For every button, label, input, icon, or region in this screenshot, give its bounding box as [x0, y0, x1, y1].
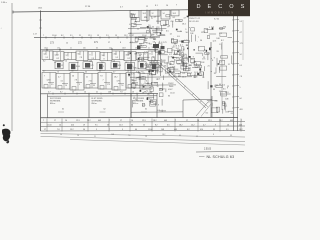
svg-text:17: 17	[120, 120, 122, 122]
inner boundary y33	[128, 32, 151, 34]
svg-text:12: 12	[152, 13, 154, 15]
right margin ticks and figures	[232, 19, 239, 21]
svg-text:11.04: 11.04	[131, 14, 136, 16]
parcels under logo	[220, 27, 223, 29]
svg-text:173: 173	[57, 47, 60, 49]
main parcel boundary vertical	[40, 11, 42, 132]
dark building block	[153, 44, 159, 48]
svg-text:3.1: 3.1	[226, 129, 229, 131]
svg-text:173: 173	[107, 84, 110, 86]
svg-text:56: 56	[153, 42, 155, 44]
svg-text:12: 12	[137, 29, 139, 31]
svg-text:8.2: 8.2	[43, 61, 45, 63]
boundary vertical x211	[210, 42, 212, 118]
svg-text:108: 108	[108, 91, 111, 93]
svg-text:7.8: 7.8	[75, 80, 78, 82]
svg-text:33: 33	[186, 45, 188, 47]
svg-text:21: 21	[94, 136, 96, 138]
svg-text:17: 17	[54, 120, 56, 122]
svg-text:15.2: 15.2	[191, 124, 195, 126]
svg-text:17: 17	[108, 42, 110, 44]
svg-text:6.5: 6.5	[166, 30, 169, 32]
svg-text:14: 14	[57, 72, 59, 74]
svg-text:7: 7	[201, 74, 202, 76]
svg-text:33: 33	[93, 85, 95, 87]
svg-text:108: 108	[216, 38, 219, 40]
svg-text:7.8: 7.8	[71, 71, 73, 73]
svg-text:64: 64	[131, 124, 133, 126]
svg-text:19: 19	[133, 26, 135, 28]
svg-text:6.5: 6.5	[189, 72, 192, 74]
svg-text:410: 410	[206, 54, 209, 56]
svg-text:9: 9	[193, 56, 194, 58]
svg-text:9: 9	[214, 86, 215, 88]
boundary vertical x160	[160, 50, 162, 76]
svg-text:9: 9	[215, 124, 216, 126]
svg-text:6.5: 6.5	[177, 36, 180, 38]
svg-text:17: 17	[219, 91, 221, 93]
svg-text:14: 14	[202, 77, 204, 79]
svg-text:2.3: 2.3	[136, 68, 139, 70]
svg-text:14: 14	[183, 49, 185, 51]
svg-text:5: 5	[79, 84, 80, 86]
svg-text:410/7: 410/7	[168, 89, 173, 91]
garage band south line	[42, 69, 158, 71]
svg-text:17.56: 17.56	[85, 6, 91, 8]
svg-text:19: 19	[214, 73, 216, 75]
building row along top street	[130, 10, 139, 17]
wall below top line	[157, 9, 159, 24]
svg-text:4.7: 4.7	[48, 91, 51, 93]
svg-text:7: 7	[203, 51, 204, 53]
svg-text:2.3: 2.3	[219, 33, 222, 35]
svg-text:410: 410	[83, 47, 86, 49]
parcels lower right column	[222, 101, 225, 105]
svg-text:12.04: 12.04	[170, 92, 175, 94]
corner parcel structure lower right	[182, 100, 184, 117]
svg-text:19: 19	[128, 76, 130, 78]
sloped chain lines below band	[41, 134, 246, 138]
svg-text:173: 173	[155, 33, 158, 35]
large rear parcels	[47, 94, 49, 117]
svg-text:14: 14	[131, 120, 133, 122]
svg-text:11.04: 11.04	[142, 35, 146, 37]
svg-text:173: 173	[134, 22, 137, 24]
svg-text:3.1: 3.1	[70, 35, 73, 37]
svg-text:19: 19	[178, 50, 180, 52]
svg-text:18.2: 18.2	[179, 41, 183, 43]
svg-text:403: 403	[98, 120, 101, 122]
svg-text:11.04: 11.04	[156, 21, 161, 23]
svg-text:12.3: 12.3	[142, 120, 146, 122]
svg-text:13: 13	[183, 56, 185, 58]
svg-text:3.1: 3.1	[61, 81, 64, 83]
svg-text:WEG: WEG	[169, 86, 174, 88]
svg-text:173: 173	[91, 65, 94, 67]
svg-text:13: 13	[159, 35, 161, 37]
svg-text:56: 56	[147, 93, 149, 95]
svg-text:21: 21	[189, 68, 191, 70]
svg-text:403: 403	[230, 120, 233, 122]
svg-text:8: 8	[150, 54, 151, 56]
svg-text:1203/4 7.5 12: 1203/4 7.5 12	[189, 18, 200, 20]
svg-text:4.7: 4.7	[240, 32, 243, 34]
svg-text:19: 19	[196, 136, 198, 138]
svg-text:12: 12	[66, 42, 68, 44]
svg-text:18.2: 18.2	[175, 60, 179, 62]
DECOS IMMOBILIEN logo box	[188, 0, 250, 16]
svg-text:21: 21	[96, 91, 98, 93]
ink blot mark bottom-left	[3, 124, 5, 126]
cadastral map sheet	[0, 0, 250, 165]
svg-text:14: 14	[163, 13, 165, 15]
svg-text:5: 5	[134, 88, 135, 90]
svg-text:18.2: 18.2	[219, 120, 223, 122]
svg-text:18.2: 18.2	[153, 120, 157, 122]
svg-text:56: 56	[60, 134, 62, 136]
svg-text:18.2: 18.2	[126, 54, 130, 56]
svg-text:12.3: 12.3	[213, 40, 217, 42]
svg-text:9.5: 9.5	[204, 49, 207, 51]
dense buildings mid right	[183, 54, 186, 58]
svg-text:9: 9	[140, 59, 141, 61]
boundary vertical x188	[188, 16, 190, 62]
svg-text:6.5: 6.5	[240, 65, 243, 67]
svg-text:108: 108	[151, 34, 154, 36]
svg-text:14: 14	[65, 120, 67, 122]
svg-text:850 m: 850 m	[50, 103, 56, 105]
svg-text:IMMOBILIEN: IMMOBILIEN	[206, 11, 235, 14]
svg-text:14: 14	[127, 71, 129, 73]
svg-text:9: 9	[141, 54, 142, 56]
svg-text:12.3: 12.3	[118, 65, 121, 67]
svg-text:2.3: 2.3	[219, 61, 222, 63]
svg-text:9.5: 9.5	[116, 57, 119, 59]
svg-text:18.2: 18.2	[173, 13, 177, 15]
svg-text:62: 62	[62, 109, 64, 111]
svg-text:4.7: 4.7	[203, 124, 206, 126]
svg-text:18.2: 18.2	[162, 134, 165, 136]
svg-text:7.8: 7.8	[144, 17, 147, 19]
garage band of dark filled buildings	[57, 63, 61, 68]
svg-text:9: 9	[90, 54, 91, 56]
svg-text:DECOS: DECOS	[197, 4, 251, 10]
svg-text:108: 108	[190, 33, 193, 35]
svg-text:9: 9	[204, 31, 205, 33]
svg-text:3.1: 3.1	[180, 44, 183, 46]
svg-text:11.04: 11.04	[148, 129, 152, 131]
faint right inner line	[242, 20, 244, 60]
svg-text:33: 33	[213, 89, 215, 91]
svg-text:7: 7	[43, 120, 44, 122]
svg-text:108: 108	[225, 99, 228, 101]
svg-text:2.5103: 2.5103	[204, 149, 212, 151]
svg-text:8.2: 8.2	[165, 73, 168, 75]
svg-text:17: 17	[44, 129, 46, 131]
bottom measurement band lines	[41, 121, 246, 124]
svg-text:12: 12	[153, 39, 155, 41]
svg-text:850 m: 850 m	[92, 103, 98, 105]
svg-text:410: 410	[71, 124, 74, 126]
svg-text:8.2 64: 8.2 64	[214, 19, 219, 21]
svg-text:19: 19	[115, 35, 117, 37]
right border line inner	[237, 16, 239, 131]
svg-text:9.5: 9.5	[161, 50, 164, 52]
svg-text:9: 9	[122, 129, 123, 131]
svg-text:403: 403	[239, 124, 242, 126]
svg-text:7.8: 7.8	[240, 76, 243, 78]
svg-text:14: 14	[77, 135, 79, 137]
svg-text:3.1: 3.1	[211, 27, 214, 29]
svg-text:64: 64	[96, 47, 98, 49]
svg-text:14: 14	[59, 124, 61, 126]
svg-text:56 9.51 403: 56 9.51 403	[189, 21, 199, 23]
svg-text:12.3: 12.3	[194, 72, 198, 74]
svg-text:12: 12	[143, 124, 145, 126]
svg-text:12.3: 12.3	[88, 35, 92, 37]
svg-text:17: 17	[66, 55, 68, 57]
inner boundary y112	[131, 111, 183, 113]
svg-text:7: 7	[143, 92, 144, 94]
svg-text:9.5: 9.5	[172, 47, 175, 49]
vertical ticks through measurement band	[46, 119, 48, 132]
svg-text:62: 62	[104, 109, 106, 111]
svg-text:7: 7	[198, 47, 199, 49]
svg-text:7: 7	[133, 35, 134, 37]
svg-text:8: 8	[147, 90, 148, 92]
svg-text:7.51: 7.51	[89, 81, 93, 83]
svg-text:12: 12	[198, 66, 200, 68]
svg-text:7: 7	[198, 37, 199, 39]
svg-text:5: 5	[172, 61, 173, 63]
svg-text:4.7: 4.7	[144, 53, 147, 55]
svg-text:21: 21	[172, 67, 174, 69]
svg-text:21: 21	[208, 66, 210, 68]
svg-text:11.04: 11.04	[47, 124, 51, 126]
svg-text:62: 62	[145, 109, 147, 111]
building row 1	[42, 51, 53, 60]
svg-text:13: 13	[132, 91, 134, 93]
svg-text:173: 173	[117, 81, 120, 83]
dense buildings upper right-centre	[166, 15, 170, 17]
svg-text:8.2: 8.2	[154, 103, 157, 105]
svg-text:7: 7	[44, 76, 45, 78]
svg-text:8: 8	[104, 59, 105, 61]
svg-text:410: 410	[170, 21, 173, 23]
svg-text:56: 56	[200, 40, 202, 42]
horizontal boundary y85	[135, 84, 176, 86]
svg-text:12.3: 12.3	[208, 120, 212, 122]
svg-text:4.7: 4.7	[144, 52, 147, 54]
svg-text:18.2: 18.2	[179, 124, 183, 126]
svg-text:5: 5	[96, 129, 97, 131]
svg-text:64: 64	[85, 72, 87, 74]
svg-text:4.7: 4.7	[113, 72, 115, 74]
svg-text:403: 403	[164, 120, 167, 122]
svg-text:7.51: 7.51	[146, 43, 150, 45]
svg-text:14: 14	[65, 85, 67, 87]
svg-text:18.2: 18.2	[114, 76, 118, 78]
svg-text:21: 21	[143, 73, 145, 75]
svg-text:64: 64	[219, 84, 221, 86]
svg-text:9: 9	[168, 26, 169, 28]
svg-text:5: 5	[209, 27, 210, 29]
street north edge line	[34, 36, 160, 39]
svg-text:9.5: 9.5	[150, 71, 153, 73]
caption underline	[196, 150, 244, 153]
rear parcel boundary line	[41, 92, 159, 94]
svg-text:108: 108	[161, 129, 164, 131]
svg-text:850 m: 850 m	[133, 103, 139, 105]
svg-text:7: 7	[43, 35, 44, 37]
svg-text:7.8: 7.8	[101, 62, 103, 64]
svg-text:11.04: 11.04	[76, 66, 80, 68]
svg-text:8.2: 8.2	[187, 129, 190, 131]
svg-text:1203: 1203	[122, 47, 126, 49]
svg-text:7.8: 7.8	[80, 57, 83, 59]
svg-text:173: 173	[142, 105, 145, 107]
svg-text:21: 21	[79, 35, 81, 37]
svg-text:9.5: 9.5	[191, 59, 194, 61]
svg-text:15.2: 15.2	[124, 35, 128, 37]
svg-text:21: 21	[70, 47, 72, 49]
svg-text:86: 86	[168, 96, 170, 98]
svg-text:403: 403	[174, 129, 177, 131]
svg-text:17: 17	[186, 120, 188, 122]
svg-text:8.2: 8.2	[221, 40, 224, 42]
svg-text:173: 173	[131, 73, 134, 75]
svg-text:12.3: 12.3	[76, 120, 80, 122]
svg-text:13: 13	[154, 16, 156, 18]
svg-text:8.2: 8.2	[222, 84, 225, 86]
svg-text:8: 8	[180, 31, 181, 33]
svg-text:11.04: 11.04	[144, 83, 149, 85]
svg-text:15.2: 15.2	[109, 47, 112, 49]
svg-text:18.2: 18.2	[182, 23, 186, 25]
svg-text:14: 14	[170, 34, 172, 36]
svg-text:12.3: 12.3	[119, 124, 123, 126]
svg-text:9: 9	[158, 105, 159, 107]
svg-text:14: 14	[240, 54, 242, 56]
svg-text:1.84 a: 1.84 a	[1, 2, 8, 4]
svg-text:8.2: 8.2	[135, 54, 138, 56]
svg-text:1203: 1203	[163, 24, 167, 26]
svg-text:1203: 1203	[55, 54, 59, 56]
svg-text:2.3: 2.3	[138, 72, 141, 74]
svg-text:403: 403	[223, 27, 226, 29]
svg-text:21: 21	[148, 47, 150, 49]
building row 2	[42, 73, 56, 89]
svg-text:21: 21	[186, 59, 188, 61]
svg-text:15.2: 15.2	[70, 129, 74, 131]
svg-text:8: 8	[219, 44, 220, 46]
ticks and measures along street north edge	[45, 36, 47, 38]
svg-text:9.5: 9.5	[240, 21, 243, 23]
svg-text:11.04: 11.04	[174, 53, 179, 55]
svg-text:8.2: 8.2	[173, 17, 176, 19]
svg-text:8: 8	[213, 134, 214, 136]
svg-text:14: 14	[166, 5, 168, 7]
svg-text:410: 410	[132, 83, 135, 85]
svg-text:18.2: 18.2	[87, 120, 91, 122]
survey point circles on street south edge	[46, 49, 48, 51]
svg-text:8: 8	[212, 60, 213, 62]
svg-text:7.8: 7.8	[121, 85, 123, 87]
svg-text:56: 56	[72, 76, 74, 78]
svg-text:6.5: 6.5	[158, 78, 161, 80]
svg-text:11.04: 11.04	[160, 88, 165, 90]
svg-text:8.2: 8.2	[155, 124, 158, 126]
svg-text:8.2: 8.2	[206, 113, 209, 115]
inner boundary y28	[128, 27, 146, 29]
svg-text:6.5: 6.5	[183, 73, 186, 75]
svg-text:7.8: 7.8	[100, 76, 103, 78]
svg-text:3.1: 3.1	[140, 64, 143, 66]
boundary vertical x222	[221, 42, 223, 110]
svg-text:7: 7	[103, 80, 104, 82]
svg-text:4.7: 4.7	[129, 24, 132, 26]
svg-text:403: 403	[240, 109, 243, 111]
svg-text:21: 21	[178, 20, 180, 22]
svg-text:9: 9	[185, 29, 186, 31]
svg-text:14: 14	[84, 91, 86, 93]
wall below top line	[146, 10, 148, 22]
svg-text:6.5: 6.5	[167, 124, 170, 126]
svg-text:173: 173	[184, 40, 187, 42]
street boundary line top	[13, 9, 250, 12]
svg-text:173: 173	[240, 43, 243, 45]
svg-text:33: 33	[135, 79, 137, 81]
svg-text:403: 403	[154, 82, 157, 84]
svg-text:6.5: 6.5	[223, 89, 226, 91]
svg-text:4.7: 4.7	[58, 76, 61, 78]
svg-text:12: 12	[61, 65, 63, 67]
svg-text:13: 13	[170, 63, 172, 65]
svg-text:410: 410	[200, 129, 203, 131]
svg-text:173: 173	[163, 42, 166, 44]
svg-text:12: 12	[203, 57, 205, 59]
svg-text:8.2: 8.2	[57, 58, 60, 60]
south boundary main line	[41, 116, 239, 118]
svg-text:7: 7	[176, 5, 177, 7]
svg-text:33: 33	[213, 129, 215, 131]
svg-text:33: 33	[189, 65, 191, 67]
svg-text:1301: 1301	[38, 8, 42, 10]
svg-text:1.17: 1.17	[33, 34, 37, 36]
tick at left end of top street line	[12, 11, 14, 14]
svg-text:15.2: 15.2	[174, 43, 178, 45]
svg-text:3.1: 3.1	[149, 101, 152, 103]
svg-text:4.7: 4.7	[184, 17, 187, 19]
svg-text:108: 108	[111, 134, 114, 136]
svg-text:173: 173	[171, 50, 174, 52]
svg-text:2.3: 2.3	[106, 35, 109, 37]
svg-text:19: 19	[83, 124, 85, 126]
svg-text:NL SCHULG 63: NL SCHULG 63	[207, 155, 235, 159]
horizontal boundary y77	[130, 76, 192, 78]
svg-text:8.2: 8.2	[61, 35, 64, 37]
dark building block 2	[161, 46, 165, 49]
tick on main vertical	[39, 19, 42, 21]
svg-text:33: 33	[216, 51, 218, 53]
svg-text:12: 12	[44, 54, 46, 56]
svg-text:14: 14	[65, 61, 67, 63]
svg-text:9.5: 9.5	[95, 124, 98, 126]
svg-text:18.2: 18.2	[225, 111, 229, 113]
svg-text:13: 13	[97, 35, 99, 37]
tick on main vertical 2	[39, 27, 42, 29]
svg-text:15.2: 15.2	[153, 62, 157, 64]
